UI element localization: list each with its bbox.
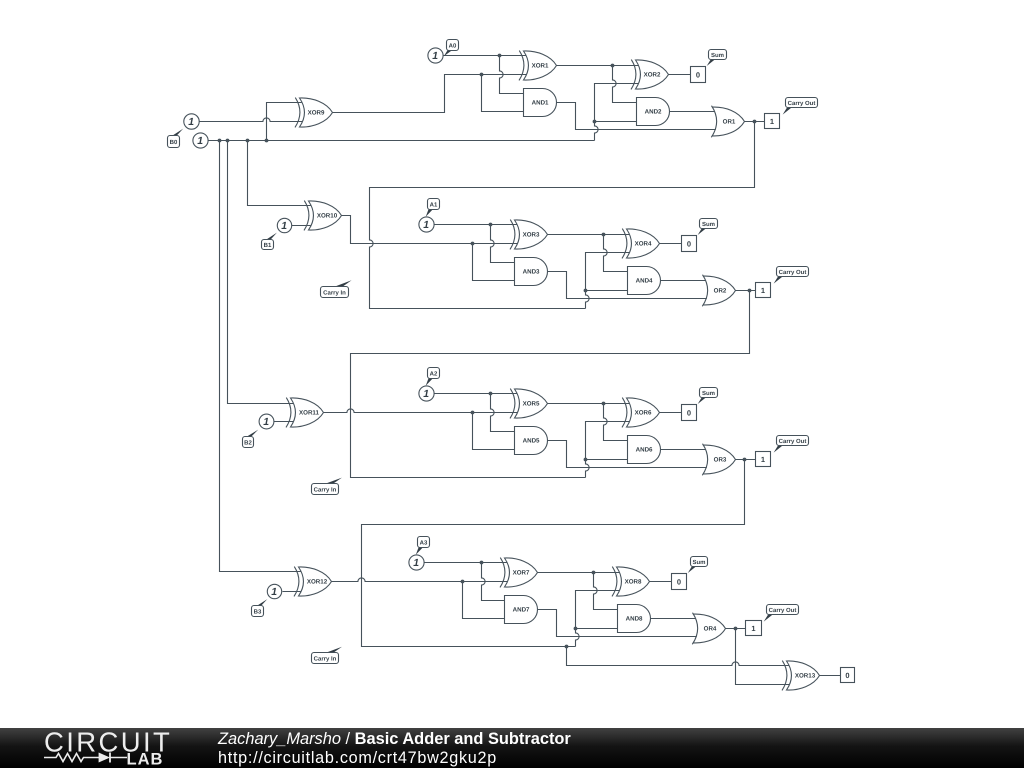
wire junction node down to AND4 top input [604, 235, 628, 272]
wire carry3 from OR3 down and across to stage4 [362, 460, 745, 647]
wire XOR6 output to sum indicator [660, 412, 682, 414]
svg-text:XOR11: XOR11 [299, 410, 320, 417]
wire AND2 output to OR1 top input [670, 111, 718, 113]
logic input source B1 (value 1) [277, 218, 291, 232]
flag label A1 [426, 199, 440, 217]
svg-text:XOR3: XOR3 [523, 232, 540, 239]
AND gate AND8 [618, 605, 651, 633]
junction on OR2 output [748, 289, 752, 293]
junction on A2 wire [489, 392, 493, 396]
junction carry3 branch [565, 645, 569, 649]
sum output indicator (0) stage 3 [682, 405, 697, 421]
footer title text [218, 730, 571, 749]
svg-text:XOR10: XOR10 [317, 213, 338, 220]
flag label Carry In stage 2 [321, 280, 352, 297]
wire B-xor output into XOR3 bottom input and AND3 bottom input [473, 243, 519, 245]
wire AND4 output to OR2 top input [661, 280, 709, 282]
wire control bus from source to stage1 riser [208, 140, 595, 142]
svg-text:A1: A1 [430, 201, 438, 208]
svg-text:0: 0 [845, 671, 849, 680]
flag label Carry Out stage 2 [774, 267, 809, 284]
wire junction node down to AND8 top input [594, 573, 619, 610]
svg-text:AND6: AND6 [636, 447, 653, 454]
junction on B-xor wire [480, 73, 484, 77]
junction on A3 wire [480, 561, 484, 565]
wire AND7 output to OR4 bottom input [538, 610, 699, 637]
XOR gate XOR9 [295, 98, 333, 128]
wire B2 to XOR11 bottom input [274, 421, 294, 423]
wire XOR7 output to XOR8 top input [538, 572, 622, 574]
junction on B-xor wire [461, 580, 465, 584]
wire XOR8 output to sum indicator [650, 581, 672, 583]
wire B1 to XOR10 bottom input [292, 225, 312, 227]
svg-text:B3: B3 [254, 608, 262, 615]
wire A0 input to XOR1 [443, 55, 528, 57]
logic input source A1 (value 1) [419, 217, 434, 232]
wire XOR3 output to XOR4 top input [548, 234, 631, 236]
footer url text [218, 749, 497, 768]
wire OR1 output to carry indicator [745, 121, 765, 123]
flag label A0 [444, 40, 459, 57]
wire carry2 from OR2 down and across to stage3 [351, 291, 750, 478]
carry output indicator (1) stage 3 [756, 452, 771, 467]
svg-text:Carry In: Carry In [323, 289, 346, 296]
flag label B1 [262, 233, 277, 250]
wire B-xor output into XOR7 bottom input and AND7 bottom input [332, 578, 509, 582]
XOR gate XOR2 [631, 60, 669, 90]
svg-text:1: 1 [761, 286, 765, 295]
wire A3 input to XOR7 [424, 562, 509, 564]
XOR gate XOR10 [304, 201, 342, 231]
junction on carry riser [593, 120, 597, 124]
CircuitLab logo [0, 728, 200, 768]
wire OR2 output to carry indicator [736, 290, 756, 292]
wire junction node to AND8 bottom input [576, 628, 619, 630]
junction on XOR5 output [602, 402, 606, 406]
XOR gate XOR1 [519, 51, 557, 81]
wire junction node down to AND5 bottom input [473, 413, 515, 450]
svg-text:AND8: AND8 [626, 616, 643, 623]
junction on B-xor wire [471, 242, 475, 246]
logic input source A2 (value 1) [419, 386, 434, 401]
wire AND3 output to OR2 bottom input [548, 272, 709, 299]
wire junction node down to AND2 top input [613, 66, 637, 103]
wire junction A3 node down to AND7 top input [482, 563, 505, 601]
wire junction node to AND6 bottom input [586, 459, 628, 461]
svg-text:Carry Out: Carry Out [769, 607, 797, 614]
svg-text:B1: B1 [264, 242, 272, 249]
wire A2 input to XOR5 [434, 393, 519, 395]
wire carry riser to XOR4 and AND4 bottom inputs [586, 253, 631, 309]
wire junction node to AND4 bottom input [586, 290, 628, 292]
wire AND6 output to OR3 top input [661, 449, 709, 451]
wire XOR5 output to XOR6 top input [548, 403, 631, 405]
svg-text:B0: B0 [170, 139, 178, 146]
wire XOR9 output to stage1 b-input [333, 75, 482, 113]
carry output indicator (1) stage 2 [756, 283, 771, 298]
overflow output indicator (0) [841, 668, 855, 683]
wire XOR4 output to sum indicator [660, 243, 682, 245]
svg-text:1: 1 [188, 117, 194, 128]
OR gate OR1 [711, 106, 744, 138]
AND gate AND7 [505, 596, 538, 624]
wire OR4 output to carry indicator [726, 628, 746, 630]
XOR gate XOR13 [782, 661, 820, 691]
svg-text:0: 0 [696, 70, 700, 79]
junction on XOR1 output [611, 64, 615, 68]
wire AND8 output to OR4 top input [651, 618, 699, 620]
flag label Sum stage 4 [688, 557, 708, 574]
svg-text:Sum: Sum [692, 559, 705, 566]
junction on carry riser [584, 289, 588, 293]
flag label Carry In stage 3 [312, 478, 343, 495]
svg-text:Sum: Sum [702, 221, 715, 228]
svg-text:OR2: OR2 [714, 288, 727, 295]
OR gate OR3 [702, 444, 735, 476]
junction on carry riser [584, 458, 588, 462]
svg-text:A2: A2 [430, 370, 438, 377]
footer bar [0, 728, 1024, 768]
svg-text:1: 1 [770, 117, 774, 126]
svg-text:1: 1 [432, 51, 438, 62]
wire junction A2 node down to AND5 top input [491, 394, 515, 432]
OR gate OR4 [692, 613, 725, 645]
svg-text:0: 0 [687, 408, 691, 417]
svg-text:A3: A3 [420, 539, 428, 546]
wire A1 input to XOR3 [434, 224, 519, 226]
wire carry3 branch down to XOR13 top input [567, 647, 791, 666]
svg-text:XOR9: XOR9 [308, 110, 325, 117]
junction on OR1 output [753, 120, 757, 124]
wire B3 to XOR12 bottom input [283, 591, 302, 593]
OR gate OR2 [702, 275, 735, 307]
svg-text:1: 1 [413, 558, 419, 569]
XOR gate XOR8 [612, 567, 650, 597]
svg-text:AND2: AND2 [645, 109, 662, 116]
svg-text:XOR1: XOR1 [532, 63, 549, 70]
flag label Sum stage 1 [707, 50, 727, 67]
svg-text:XOR13: XOR13 [795, 673, 816, 680]
flag label Carry Out stage 4 [764, 605, 799, 622]
svg-text:OR3: OR3 [714, 457, 727, 464]
wire bus drop to XOR12 top input [220, 141, 303, 572]
wire bus drop to XOR11 top input [228, 141, 295, 404]
svg-text:Carry In: Carry In [314, 486, 337, 493]
logic input source A3 (value 1) [409, 555, 424, 570]
XOR gate XOR6 [622, 398, 660, 428]
svg-text:B2: B2 [244, 439, 252, 446]
svg-text:AND4: AND4 [636, 278, 653, 285]
wire XOR1 output to XOR2 top input [557, 65, 640, 67]
flag label Carry Out stage 3 [774, 436, 809, 453]
svg-text:A0: A0 [449, 42, 457, 49]
wire control bus branch up to XOR9 top input [267, 103, 302, 141]
svg-text:1: 1 [751, 624, 755, 633]
junction bus/XOR11 drop [226, 139, 230, 143]
svg-text:XOR5: XOR5 [523, 401, 540, 408]
sum output indicator (0) stage 4 [672, 574, 687, 590]
flag label A3 [416, 537, 430, 555]
flag label A2 [426, 368, 440, 386]
flag label B2 [243, 430, 259, 448]
AND gate AND6 [628, 436, 661, 464]
svg-text:1: 1 [271, 587, 277, 598]
flag label Sum stage 2 [698, 219, 718, 236]
logic input source A0 (value 1) [428, 48, 443, 63]
svg-text:XOR7: XOR7 [513, 570, 530, 577]
svg-text:OR4: OR4 [704, 626, 717, 633]
wire XOR10 output down to stage2 b-input [342, 216, 473, 244]
svg-text:0: 0 [687, 239, 691, 248]
junction on carry riser [574, 627, 578, 631]
wire B-xor output into XOR5 bottom input and AND5 bottom input [324, 409, 519, 413]
svg-text:1: 1 [263, 417, 269, 428]
junction bus/XOR10 drop [246, 139, 250, 143]
svg-text:Carry Out: Carry Out [788, 100, 816, 107]
wire bus drop to XOR10 top input [248, 141, 313, 206]
XOR gate XOR4 [622, 229, 660, 259]
flag label Sum stage 3 [698, 388, 718, 405]
wire OR3 output to carry indicator [736, 459, 756, 461]
wire junction node down to AND7 bottom input [463, 582, 505, 619]
junction on A1 wire [489, 223, 493, 227]
XOR gate XOR11 [286, 398, 324, 428]
svg-text:XOR4: XOR4 [635, 241, 652, 248]
wire junction A0 node down to AND1 top input [500, 56, 524, 94]
wire carry4 from OR4 down to XOR13 bottom input [736, 629, 791, 685]
wire XOR2 output to sum indicator [669, 74, 691, 76]
junction on XOR3 output [602, 233, 606, 237]
svg-text:LAB: LAB [127, 751, 164, 768]
svg-text:Carry Out: Carry Out [779, 269, 807, 276]
svg-text:AND5: AND5 [523, 438, 540, 445]
svg-text:OR1: OR1 [723, 119, 736, 126]
svg-text:Sum: Sum [702, 390, 715, 397]
AND gate AND5 [515, 427, 548, 455]
flag label B3 [252, 599, 268, 616]
junction bus/XOR9 branch [265, 139, 269, 143]
wire AND1 output to OR1 bottom input [557, 103, 718, 130]
svg-text:1: 1 [423, 389, 429, 400]
logic input source subtract control (value 1) [193, 133, 208, 148]
junction on XOR7 output [592, 571, 596, 575]
wire carry riser to XOR8 and AND8 bottom inputs [576, 591, 622, 647]
logic input source B0 (value 1) [184, 114, 199, 129]
carry output indicator (1) stage 4 [746, 621, 762, 636]
svg-text:0: 0 [677, 577, 681, 586]
wire B-xor output into XOR1 bottom input and AND1 bottom input [482, 74, 528, 76]
svg-text:XOR6: XOR6 [635, 410, 652, 417]
AND gate AND2 [637, 98, 670, 126]
svg-text:AND1: AND1 [532, 100, 549, 107]
wire XOR13 output to overflow indicator [820, 675, 841, 677]
AND gate AND4 [628, 267, 661, 295]
svg-text:Carry Out: Carry Out [779, 438, 807, 445]
XOR gate XOR3 [510, 220, 548, 250]
junction on A0 wire [498, 54, 502, 58]
svg-text:XOR12: XOR12 [307, 579, 328, 586]
AND gate AND3 [515, 258, 548, 286]
flag label Carry Out stage 1 [783, 98, 818, 115]
XOR gate XOR7 [500, 558, 538, 588]
junction bus/XOR12 drop [218, 139, 222, 143]
svg-text:1: 1 [761, 455, 765, 464]
svg-text:Sum: Sum [711, 52, 724, 59]
wire carry riser to XOR6 and AND6 bottom inputs [586, 422, 631, 478]
svg-text:AND3: AND3 [523, 269, 540, 276]
logic input source B2 (value 1) [259, 414, 274, 429]
svg-text:1: 1 [197, 136, 203, 147]
wire junction node down to AND1 bottom input [482, 75, 524, 112]
logic input source B3 (value 1) [267, 584, 281, 598]
wire junction A1 node down to AND3 top input [491, 225, 515, 263]
svg-text:XOR8: XOR8 [625, 579, 642, 586]
svg-text:AND7: AND7 [513, 607, 530, 614]
wire AND5 output to OR3 bottom input [548, 441, 709, 468]
junction on OR4 output [734, 627, 738, 631]
XOR gate XOR12 [294, 567, 332, 597]
carry output indicator (1) stage 1 [765, 114, 780, 129]
AND gate AND1 [524, 89, 557, 117]
flag label Carry In stage 4 [312, 647, 343, 664]
svg-text:XOR2: XOR2 [644, 72, 661, 79]
junction on B-xor wire [471, 411, 475, 415]
svg-text:1: 1 [423, 220, 429, 231]
wire carry1 from OR1 down and across to stage2 [370, 122, 755, 309]
wire junction node down to AND6 top input [604, 404, 628, 441]
wire junction node down to AND3 bottom input [473, 244, 515, 281]
flag label B0 [168, 129, 184, 148]
XOR gate XOR5 [510, 389, 548, 419]
sum output indicator (0) stage 1 [691, 67, 706, 83]
svg-text:1: 1 [281, 221, 287, 232]
svg-text:Carry In: Carry In [314, 655, 337, 662]
wire carry riser to XOR2 and AND2 bottom inputs [595, 84, 640, 141]
wire B0 to XOR9 bottom input [199, 118, 304, 122]
sum output indicator (0) stage 2 [682, 236, 697, 252]
junction on OR3 output [743, 458, 747, 462]
wire junction node to AND2 bottom input [595, 121, 637, 123]
